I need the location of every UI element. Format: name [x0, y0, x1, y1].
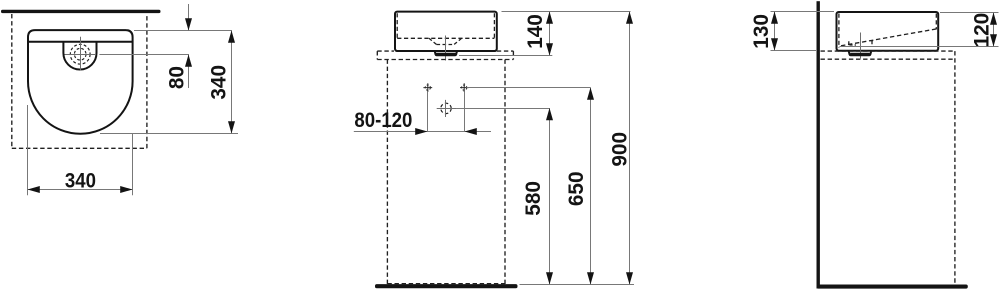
extension line bottom (plan vertical 340) [100, 133, 238, 135]
drain outlet (front) [435, 51, 458, 55]
svg-text:900: 900 [608, 132, 631, 167]
dashed shelf slab (front) [377, 51, 513, 59]
drain recess hidden lines (side) [849, 41, 874, 47]
dimension 900 shaft [629, 12, 631, 285]
svg-text:120: 120 [970, 13, 993, 48]
left fixing hole (front) [423, 83, 432, 92]
floor bar (side) [817, 285, 968, 289]
svg-text:130: 130 [750, 14, 773, 49]
dimension 130 shaft [774, 12, 776, 51]
inner wall hidden lines (side) [839, 14, 936, 49]
wall bar (side) [817, 1, 820, 288]
dashed pedestal sides (front) [387, 60, 505, 285]
dimension 120 arrows [990, 13, 997, 47]
extension line top (plan right) [134, 30, 232, 32]
svg-text:80-120: 80-120 [354, 109, 412, 132]
dimension 130 arrows [771, 12, 778, 51]
dimension 80-120 arrows [415, 128, 477, 135]
dimension 340 vertical arrows [228, 31, 235, 134]
extension lines bottom width (plan) [28, 105, 133, 195]
dimension 650 shaft [590, 88, 592, 285]
extension line 140 bottom (front) [459, 55, 552, 57]
svg-text:340: 340 [65, 169, 96, 192]
dimension 340 horizontal shaft [28, 189, 133, 191]
svg-text:650: 650 [565, 171, 588, 206]
drain flange line (front) [436, 53, 456, 55]
dashed pedestal edge (side) [954, 51, 956, 284]
extension line 120 bottom (side) [840, 46, 999, 48]
dimension 340 horizontal arrows [28, 186, 133, 193]
dimension 140 arrows [546, 12, 553, 56]
dimension 80-120 line [354, 131, 491, 133]
dimension 900 arrows [626, 12, 633, 285]
extension line 130 bottom (side) [771, 50, 817, 52]
dashed shelf slab (side) [821, 51, 955, 59]
dimension 140 shaft [549, 12, 551, 56]
extension line top (front) [502, 11, 631, 13]
extension lines fixing holes down (front) [428, 92, 465, 132]
drain flange line (side) [850, 53, 870, 55]
svg-text:80: 80 [165, 66, 188, 89]
extension line tap centre (plan) [99, 54, 189, 56]
dimension 80 arrows [185, 18, 192, 67]
drain slope hidden lines (front) [429, 38, 462, 44]
svg-text:340: 340 [207, 65, 230, 100]
floor extension line (front) [520, 284, 635, 286]
inner wall hidden lines (front) [397, 13, 494, 38]
extension line tap to 580 (front) [457, 108, 550, 110]
dashed pedestal bottom (front) [387, 283, 505, 285]
tap hole crosshair (plan) [65, 37, 97, 71]
svg-text:580: 580 [522, 181, 545, 216]
centre line (front) [445, 36, 447, 61]
centre line (side) [860, 33, 862, 59]
right fixing hole (front) [460, 83, 469, 92]
extension line holes to 650 (front) [467, 87, 591, 89]
tap hole dashed circle (front) [441, 103, 451, 113]
wall bar (plan, top) [1, 10, 161, 13]
dimension 80 (plan) shafts [188, 4, 190, 88]
svg-text:140: 140 [524, 14, 547, 49]
dimension 650 arrows [587, 88, 594, 285]
rim back edge line (plan) [28, 41, 132, 43]
extension line 120 top (side) [940, 12, 999, 14]
dimension 120 shaft [993, 13, 995, 47]
sloped bowl bottom hidden line (side) [841, 29, 937, 46]
dimension 580 shaft [549, 108, 551, 285]
tap hole crosshair (front) [437, 100, 457, 117]
dimension 340 vertical shaft [231, 31, 233, 134]
washbasin body (front) [395, 12, 497, 51]
drain outlet (side) [849, 51, 872, 55]
dimension 580 arrows [546, 108, 553, 285]
extension line 130 top (side) [771, 11, 835, 13]
tap ledge U recess (plan) [63, 42, 96, 70]
dashed installation boundary (plan) [12, 14, 147, 148]
washbasin body (side) [837, 12, 939, 51]
floor bar (front) [375, 284, 518, 288]
tap hole dashed circles (plan) [70, 44, 90, 64]
washbasin outer contour (plan) [28, 30, 133, 134]
